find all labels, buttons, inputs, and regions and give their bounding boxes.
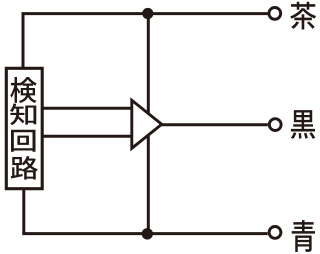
label 茶 (brown) bbox=[290, 2, 316, 30]
wire: amplifier output to black terminal bbox=[162, 123, 268, 126]
junction node: bottom rail / center bus bbox=[142, 228, 153, 239]
terminal: brown wire (open circle) bbox=[269, 7, 281, 19]
label 検 bbox=[10, 77, 36, 103]
junction node: top rail / center bus bbox=[142, 8, 153, 19]
label 知 bbox=[10, 103, 36, 125]
wire: lower input from detection box to amplifier bbox=[44, 135, 134, 138]
wire: top rail from corner to brown terminal bbox=[22, 12, 268, 15]
wire: left vertical from box top up to top rail corner bbox=[22, 14, 25, 68]
wire: bottom rail from corner to blue terminal bbox=[22, 232, 267, 235]
terminal: black wire (open circle) bbox=[269, 119, 281, 131]
label 青 (blue) bbox=[292, 220, 315, 252]
label 路 bbox=[11, 156, 38, 180]
wire: upper input from detection box to amplifier bbox=[44, 107, 134, 110]
label 黒 (black) bbox=[291, 110, 315, 139]
label 回 bbox=[11, 130, 36, 152]
terminal: blue wire (open circle) bbox=[269, 227, 281, 239]
wire: center vertical bus from top node to bottom node bbox=[147, 14, 150, 234]
detection circuit block (検知回路) bbox=[6, 68, 42, 188]
amplifier / output driver (triangle buffer) bbox=[132, 100, 162, 148]
wire: left vertical from box bottom down to bottom rail corner bbox=[22, 190, 25, 234]
